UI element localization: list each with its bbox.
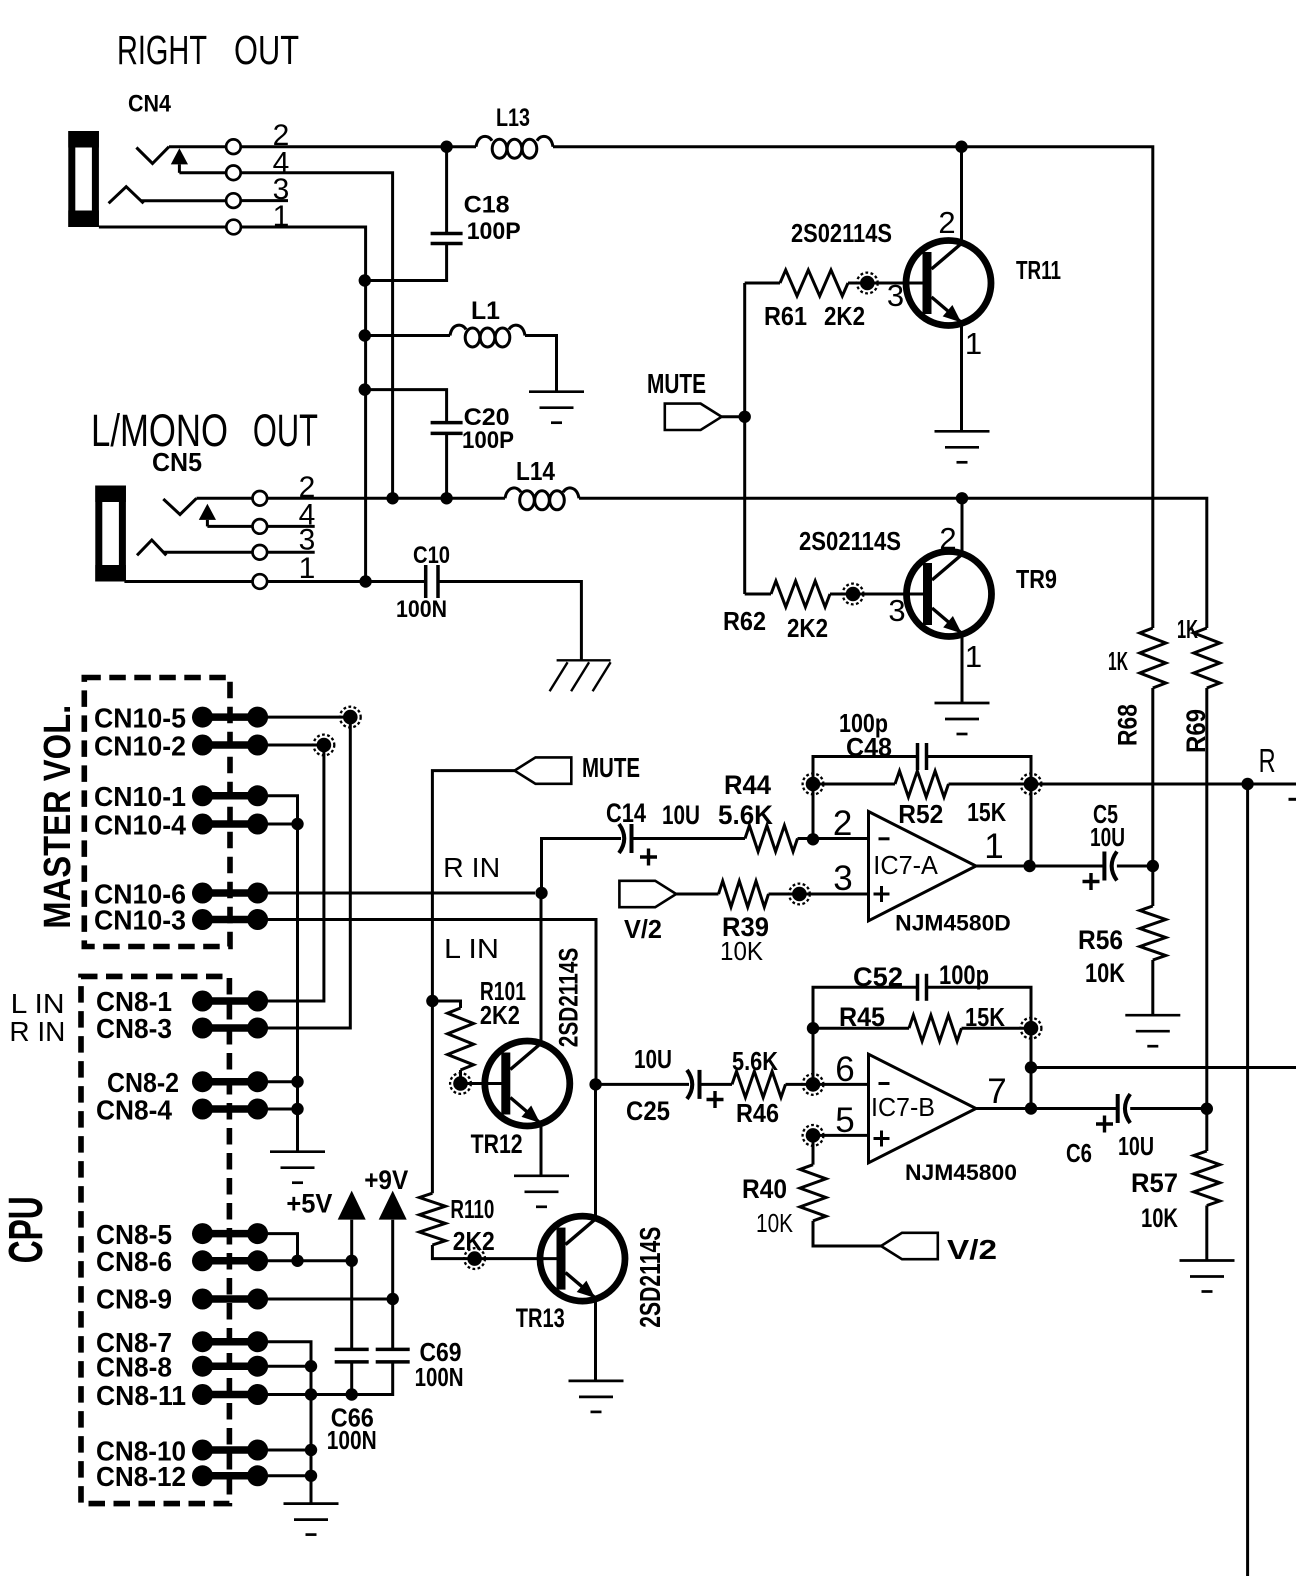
junction sleeve bus / CN5 pin1	[359, 575, 371, 587]
ground at TR11	[935, 431, 990, 462]
svg-text:CN8-2: CN8-2	[107, 1067, 179, 1098]
wire CN5 pin 2 L/MONO line	[267, 497, 505, 500]
svg-text:R68: R68	[1113, 704, 1143, 746]
junction CN8-6 +5V	[346, 1255, 358, 1267]
junction CN4 pin4 to L/MONO line	[386, 492, 398, 504]
svg-text:R45: R45	[839, 1002, 885, 1032]
wire C48 branch	[813, 757, 918, 785]
resistor R68	[1140, 628, 1166, 688]
junction R45 left	[807, 1022, 819, 1034]
wire CN10-4 to bus	[268, 823, 298, 826]
svg-text:CN8-6: CN8-6	[96, 1246, 172, 1277]
CN5 pin 4 circle	[252, 519, 267, 534]
svg-text:C6: C6	[1066, 1138, 1092, 1168]
svg-text:L1: L1	[471, 297, 500, 325]
junction CN4 pin2 / C18	[440, 141, 452, 153]
wire C48 to right riser	[927, 757, 1032, 785]
+9V supply arrow	[379, 1191, 407, 1220]
node CN10-2	[314, 735, 335, 756]
wire R IN from CN10-6	[268, 892, 535, 895]
net L output line	[1031, 1066, 1296, 1069]
connector pin CN10-2	[192, 735, 268, 756]
wire C52 branch	[813, 987, 918, 1028]
connector pin CN8-12	[192, 1465, 268, 1486]
wire TR11 emitter to ground	[960, 323, 963, 431]
wire L13 to R68 corner	[553, 147, 1153, 628]
wire R46 to pin6	[786, 1083, 869, 1086]
wire CN10-2 to CN8-1	[268, 745, 324, 1001]
wire CN5 pin 1 to C10	[267, 580, 424, 583]
wire C52 to right riser	[927, 987, 1032, 1028]
wire IC7-A output	[976, 865, 1104, 868]
svg-text:100P: 100P	[462, 427, 514, 454]
resistor R61	[780, 270, 848, 296]
junction sleeve bus / C20 top	[359, 383, 371, 395]
svg-text:R110: R110	[450, 1194, 494, 1224]
junction C20 / L-MONO line	[440, 492, 452, 504]
wire R IN riser to C14	[542, 839, 622, 894]
wire R101 to TR12 base	[461, 1070, 503, 1084]
svg-text:CN5: CN5	[152, 447, 202, 477]
svg-text:6: 6	[835, 1050, 854, 1089]
junction TR11 collector on R line	[955, 141, 967, 153]
wire CN8-2 to bus	[268, 1080, 298, 1083]
svg-text:1: 1	[965, 639, 982, 674]
net flag MUTE top	[665, 404, 722, 430]
node IC7-B pin5	[803, 1125, 824, 1146]
svg-text:TR9: TR9	[1016, 564, 1057, 594]
svg-text:3: 3	[888, 593, 905, 628]
capacitor C18	[431, 234, 463, 244]
connector pin CN10-5	[192, 707, 268, 728]
connector pin CN8-5	[192, 1223, 268, 1244]
svg-text:2SD2114S: 2SD2114S	[554, 948, 584, 1048]
wire MUTE bus to R110	[431, 1001, 434, 1193]
wire MUTE flag to bus	[722, 415, 745, 418]
resistor R39	[719, 881, 769, 907]
wire C18 top	[445, 147, 448, 234]
svg-text:CPU: CPU	[0, 1196, 53, 1263]
capacitor C25	[687, 1070, 700, 1099]
wire MUTE mid to bus	[432, 771, 514, 1001]
CN5 pin 2 circle	[252, 491, 267, 506]
svg-text:C52: C52	[853, 962, 903, 992]
wire fb to pin2 node	[812, 784, 815, 839]
connector pin CN8-4	[192, 1099, 268, 1120]
resistor R57	[1194, 1151, 1220, 1206]
svg-text:2S02114S: 2S02114S	[799, 526, 901, 556]
wire CN8-11 to bus	[268, 1393, 311, 1396]
wire R52 left	[813, 783, 895, 786]
wire TR13 collector to L IN node	[594, 1084, 597, 1218]
svg-text:R62: R62	[723, 606, 766, 636]
wire pin6 riser	[812, 1028, 815, 1084]
svg-text:R46: R46	[736, 1098, 779, 1128]
inductor L1	[450, 325, 525, 347]
svg-text:10K: 10K	[756, 1208, 794, 1238]
wire R62 to TR9 base	[830, 593, 925, 596]
svg-text:10U: 10U	[1090, 822, 1125, 852]
op-amp IC7-B	[869, 1054, 977, 1163]
svg-text:NJM45800: NJM45800	[905, 1160, 1017, 1185]
resistor R40	[800, 1165, 826, 1221]
resistor R62	[771, 581, 830, 607]
wire C66 bottom	[350, 1362, 353, 1395]
wire TR9 emitter to ground	[961, 634, 964, 703]
wire CN10-1 down to CN10-4	[268, 796, 298, 824]
ground at TR13	[569, 1381, 624, 1412]
wire CN5 pin 3 stub	[267, 551, 315, 554]
junction CN8-12	[305, 1470, 317, 1482]
node IC7-A pin3	[789, 884, 810, 905]
wire L14 to R69 corner	[579, 498, 1207, 628]
resistor R69	[1194, 628, 1220, 688]
wire R68 to C5 node	[1151, 688, 1154, 866]
ground at R57	[1180, 1261, 1235, 1292]
junction sleeve bus / C18 bottom	[359, 274, 371, 286]
svg-text:OUT: OUT	[234, 27, 299, 73]
connector pin CN10-4	[192, 814, 268, 835]
CN4 pin 2 circle	[226, 139, 241, 154]
connector pin CN8-10	[192, 1440, 268, 1461]
capacitor C52	[918, 974, 927, 1001]
svg-text:CN10-3: CN10-3	[94, 905, 186, 936]
wire CN4 arrow to pin 4	[179, 171, 226, 174]
svg-text:C48: C48	[846, 732, 892, 762]
svg-text:L IN: L IN	[444, 933, 499, 964]
junction R69/R57/C6	[1201, 1103, 1213, 1115]
junction R IN riser	[535, 887, 547, 899]
wire C69 bottom	[311, 1362, 393, 1395]
junction CN8-2	[291, 1076, 303, 1088]
svg-text:CN10-4: CN10-4	[94, 810, 186, 841]
wire R44 to op-amp pin2	[798, 837, 869, 840]
junction output / feedback riser	[1023, 860, 1035, 872]
net flag MUTE mid	[515, 757, 572, 783]
wire CN8-6 to +5V	[268, 1259, 352, 1262]
svg-text:IC7-A: IC7-A	[873, 850, 938, 880]
wire CN8-4 to bus	[268, 1108, 298, 1111]
svg-text:2K2: 2K2	[824, 301, 865, 331]
wire CN4 tip to pin 2	[169, 145, 226, 148]
ground at CN8-4 bus	[270, 1152, 325, 1183]
svg-text:V/2: V/2	[624, 914, 662, 944]
wire R101 top	[432, 1001, 460, 1008]
wire CN5 ring to pin 3	[163, 551, 253, 554]
wire R output down right edge	[1246, 784, 1249, 1576]
svg-text:CN8-4: CN8-4	[96, 1095, 172, 1126]
svg-text:NJM4580D: NJM4580D	[895, 911, 1011, 936]
net R output line	[1031, 783, 1296, 786]
svg-text:2K2: 2K2	[480, 1000, 520, 1030]
wire L IN node to C25	[596, 1083, 689, 1086]
connector pin CN8-11	[192, 1384, 268, 1405]
wire TR12 collector to R IN	[540, 893, 543, 1043]
wire feedback riser IC7-A	[1030, 784, 1033, 866]
junction MUTE bus	[739, 411, 751, 423]
connector CN4 phone jack body	[68, 131, 99, 227]
resistor R44	[745, 826, 798, 852]
junction R output	[1241, 778, 1253, 790]
svg-text:5.6K: 5.6K	[718, 800, 773, 830]
svg-text:MASTER VOL.: MASTER VOL.	[37, 705, 79, 929]
wire CN8-12 to bus	[268, 1474, 311, 1477]
svg-text:1K: 1K	[1177, 614, 1198, 644]
wire R39 to pin3	[769, 893, 869, 896]
svg-text:C10: C10	[413, 542, 450, 569]
transistor TR11	[906, 241, 991, 326]
capacitor C69	[376, 1349, 410, 1362]
svg-text:C25: C25	[626, 1096, 670, 1126]
wire MUTE bus to R61	[745, 282, 780, 285]
wire C25 to R46	[700, 1083, 733, 1086]
junction CN8-8	[305, 1360, 317, 1372]
wire R56 top	[1151, 866, 1154, 906]
connector pin CN8-1	[192, 991, 268, 1012]
capacitor C6	[1118, 1094, 1131, 1123]
svg-text:MUTE: MUTE	[647, 368, 706, 399]
junction TR9 collector on L line	[956, 492, 968, 504]
inductor L14	[505, 488, 579, 510]
MASTER VOL. dashed box	[84, 678, 230, 947]
svg-text:CN4: CN4	[128, 91, 172, 118]
wire C6 to R57 node	[1130, 1107, 1207, 1110]
resistor R110	[419, 1193, 445, 1245]
svg-text:CN8-3: CN8-3	[96, 1013, 172, 1044]
wire V/2 to R39	[676, 893, 718, 896]
svg-text:R44: R44	[724, 770, 771, 800]
node IC7-A feedback right	[1021, 774, 1042, 795]
svg-text:CN10-2: CN10-2	[94, 731, 186, 762]
TR13 base node	[464, 1248, 485, 1269]
TR11 base node	[857, 273, 878, 294]
resistor R52	[895, 771, 949, 797]
wire C5 to divider node	[1117, 865, 1153, 868]
wire TR11 collector	[960, 147, 963, 243]
svg-text:CN10-1: CN10-1	[94, 781, 186, 812]
wire +5V rail	[350, 1220, 353, 1350]
node IC7-B pin6	[803, 1074, 824, 1095]
node IC7-A inverting feedback left	[803, 774, 824, 795]
svg-text:CN8-9: CN8-9	[96, 1284, 172, 1315]
svg-text:100N: 100N	[396, 596, 447, 623]
svg-text:+5V: +5V	[286, 1189, 332, 1219]
wire IC7-B output	[976, 1107, 1116, 1110]
junction C66 ground rail	[346, 1388, 358, 1400]
svg-text:15K: 15K	[967, 797, 1006, 827]
wire MUTE bus vertical	[743, 283, 746, 594]
wire CN8-7 ground bus	[268, 1342, 311, 1504]
CN5 tip contact	[163, 498, 196, 514]
svg-text:7: 7	[987, 1072, 1006, 1111]
svg-text:TR13: TR13	[516, 1303, 565, 1333]
svg-text:TR11: TR11	[1016, 255, 1061, 285]
wire CN10-5 to CN8-3	[268, 717, 350, 1028]
wire C10 to chassis ground	[438, 582, 581, 661]
svg-text:2: 2	[939, 521, 956, 556]
svg-text:1: 1	[965, 326, 982, 361]
CN5 pin 3 circle	[252, 545, 267, 560]
resistor R46	[732, 1071, 786, 1097]
ground at L1	[529, 392, 584, 423]
svg-text:R52: R52	[898, 799, 943, 829]
+5V supply arrow	[338, 1191, 366, 1220]
wire R110 to TR13 base	[432, 1245, 557, 1259]
svg-text:IC7-B: IC7-B	[871, 1092, 935, 1122]
ground at TR12	[514, 1176, 569, 1207]
op-amp IC7-A	[869, 812, 977, 921]
wire CN5 sleeve to pin 1	[124, 580, 252, 583]
svg-text:R IN: R IN	[9, 1016, 65, 1047]
CN4 tip switch arrow	[171, 148, 188, 173]
svg-text:RIGHT: RIGHT	[117, 27, 207, 73]
wire MUTE bus to R62	[745, 593, 771, 596]
wire CN8-10 to bus	[268, 1449, 311, 1452]
svg-text:10U: 10U	[662, 800, 700, 830]
CN5 tip switch arrow	[199, 504, 216, 527]
svg-text:100N: 100N	[415, 1362, 464, 1392]
wire R40 to V/2 flag	[813, 1221, 881, 1246]
wire sleeve bus to C20	[365, 390, 447, 423]
CN4 ring contact	[109, 187, 144, 204]
CN4 tip contact	[136, 147, 169, 164]
svg-text:1: 1	[984, 827, 1003, 866]
wire CN4 ring to pin 3	[141, 199, 226, 202]
svg-text:L13: L13	[496, 104, 530, 132]
capacitor C20	[431, 423, 463, 434]
ground at CN8 bus	[284, 1504, 339, 1535]
wire C20 bottom	[445, 433, 448, 498]
svg-text:V/2: V/2	[947, 1234, 997, 1265]
junction CN8-9 +9V	[387, 1293, 399, 1305]
connector pin CN8-3	[192, 1018, 268, 1039]
capacitor C5	[1104, 852, 1117, 881]
wire L IN from CN10-3	[268, 920, 596, 1085]
wire CN5 tip to pin 2	[197, 497, 253, 500]
wire R45 left	[813, 1027, 909, 1030]
svg-text:3: 3	[833, 859, 852, 898]
svg-text:3: 3	[887, 278, 904, 313]
wire R45 right	[962, 1027, 1032, 1030]
wire CN4 sleeve to pin 1	[99, 226, 226, 229]
capacitor C48	[918, 743, 927, 770]
wire CN5 pin 4 stub	[267, 525, 315, 528]
connector CN5 phone jack body	[95, 486, 126, 582]
connector pin CN10-1	[192, 785, 268, 806]
svg-text:TR12: TR12	[471, 1129, 523, 1159]
wire R57 top	[1205, 1109, 1208, 1151]
resistor R101	[448, 1008, 474, 1070]
svg-text:MUTE: MUTE	[582, 752, 640, 783]
svg-text:2S02114S: 2S02114S	[791, 218, 892, 248]
CPU dashed box	[81, 976, 229, 1503]
svg-text:10U: 10U	[1118, 1131, 1154, 1161]
net R continuation tick	[1289, 798, 1296, 801]
wire CN8-8 to bus	[268, 1365, 311, 1368]
svg-text:C18: C18	[464, 192, 510, 219]
wire +9V rail	[391, 1220, 394, 1350]
connector pin CN8-7	[192, 1331, 268, 1352]
ground at TR9	[935, 703, 990, 734]
wire CN4 pin 3 stub	[241, 199, 288, 202]
wire TR9 collector	[961, 498, 964, 554]
wire R52 right	[949, 783, 1032, 786]
wire CN4 pin1 down the sleeve bus	[241, 227, 366, 582]
wire CN10-4 bus to CN8-2/CN8-4 and ground	[296, 824, 299, 1152]
inductor L13	[476, 136, 553, 158]
junction CN10-4	[291, 818, 303, 830]
junction output IC7-B	[1025, 1102, 1037, 1114]
svg-text:CN8-11: CN8-11	[96, 1380, 186, 1411]
wire pin5 to R40	[812, 1135, 815, 1164]
svg-text:R: R	[1259, 742, 1276, 779]
svg-text:OUT: OUT	[253, 405, 318, 456]
svg-text:L IN: L IN	[11, 988, 65, 1019]
junction L output	[1025, 1061, 1037, 1073]
wire R69 to C6 node	[1205, 688, 1208, 1109]
wire R56 to ground	[1151, 960, 1154, 1015]
transistor TR13	[540, 1216, 625, 1301]
CN4 pin 4 circle	[226, 166, 241, 181]
svg-text:+9V: +9V	[364, 1165, 408, 1195]
svg-text:R IN: R IN	[443, 852, 500, 883]
svg-text:10K: 10K	[720, 936, 764, 966]
svg-text:CN8-12: CN8-12	[96, 1461, 186, 1492]
node IC7-B feedback right	[1021, 1018, 1042, 1039]
wire CN8-5 to +5V node	[268, 1234, 298, 1261]
CN5 pin 1 circle	[252, 574, 267, 589]
connector pin CN10-6	[192, 883, 268, 904]
junction MUTE bus / R101	[426, 995, 438, 1007]
wire R57 to ground	[1205, 1206, 1208, 1261]
connector pin CN10-3	[192, 909, 268, 930]
transistor TR12	[485, 1041, 570, 1126]
svg-text:C14: C14	[606, 798, 646, 828]
net flag V/2 for R40	[881, 1233, 938, 1259]
capacitor C66	[335, 1349, 369, 1362]
CN4 pin 1 circle	[226, 220, 241, 235]
wire C14 to R44	[632, 837, 746, 840]
TR9 base node	[843, 584, 864, 605]
junction R44 / pin2	[807, 833, 819, 845]
svg-text:10U: 10U	[634, 1044, 672, 1074]
svg-text:R61: R61	[764, 301, 807, 331]
junction sleeve bus / L1	[359, 329, 371, 341]
wire pin5 to op-amp	[813, 1134, 869, 1137]
connector pin CN8-8	[192, 1356, 268, 1377]
wire TR13 emitter to ground	[594, 1299, 597, 1381]
svg-text:R40: R40	[742, 1174, 787, 1204]
CN5 ring contact	[137, 540, 166, 555]
wire CN8-9 to +9V	[268, 1298, 393, 1301]
svg-text:1K: 1K	[1108, 646, 1128, 676]
connector pin CN8-6	[192, 1250, 268, 1271]
connector pin CN8-9	[192, 1289, 268, 1310]
net flag V/2 for R39	[619, 881, 676, 907]
svg-text:100N: 100N	[327, 1425, 377, 1455]
capacitor C14	[619, 824, 632, 853]
junction CN8-10	[305, 1444, 317, 1456]
svg-text:2K2: 2K2	[787, 613, 828, 643]
wire R61 to TR11 base	[848, 282, 924, 285]
resistor R56	[1140, 906, 1166, 960]
wire TR12 emitter to ground	[540, 1124, 543, 1176]
svg-text:CN10-5: CN10-5	[94, 703, 186, 734]
svg-text:2: 2	[938, 205, 955, 240]
svg-text:R56: R56	[1078, 925, 1123, 955]
chassis ground at C10	[550, 660, 611, 691]
wire C18 bottom to sleeve bus	[365, 244, 447, 281]
